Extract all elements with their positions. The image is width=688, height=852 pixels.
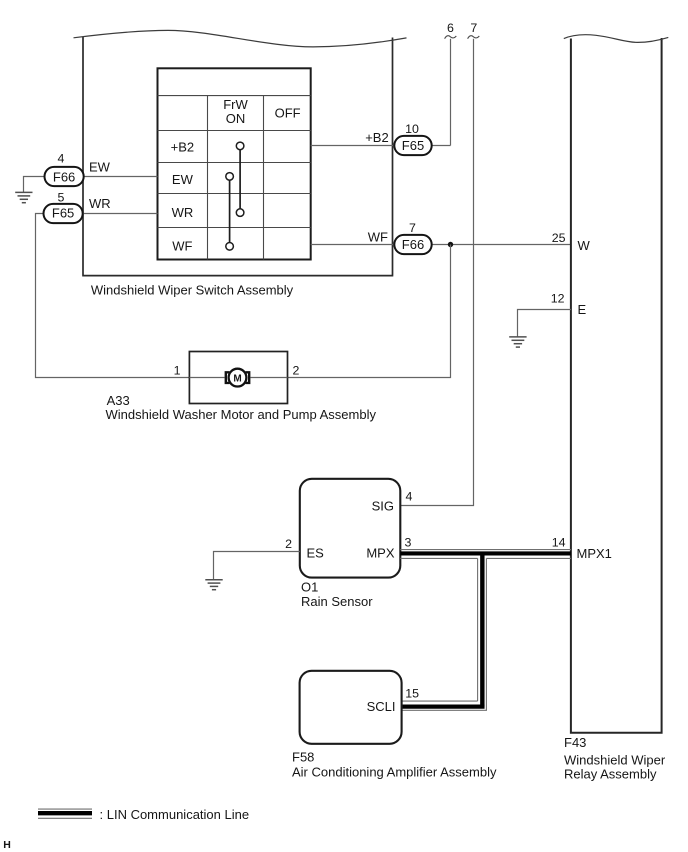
washer motor box bbox=[189, 352, 287, 404]
svg-text:F66: F66 bbox=[53, 169, 75, 184]
svg-text:2: 2 bbox=[293, 364, 300, 378]
wiper switch assembly torn-edge wavy top bbox=[74, 30, 407, 47]
legend LIN sample thick bbox=[38, 811, 92, 815]
switch contact WR bbox=[236, 209, 244, 217]
svg-text:F43: F43 bbox=[564, 735, 586, 750]
wire WR from connector to table bbox=[84, 213, 158, 215]
svg-text:+B2: +B2 bbox=[365, 130, 389, 145]
wiper switch assembly outer box bbox=[82, 37, 393, 276]
svg-text:WR: WR bbox=[89, 196, 111, 211]
svg-text:W: W bbox=[578, 238, 591, 253]
LIN line SCLI thick bbox=[402, 704, 485, 708]
switch contact WF bbox=[226, 243, 234, 251]
svg-text:15: 15 bbox=[405, 687, 419, 701]
LIN line SCLI top thin bbox=[402, 700, 478, 702]
svg-text:6: 6 bbox=[447, 21, 454, 35]
switch bar EW to WF bbox=[229, 177, 231, 247]
svg-text:A33: A33 bbox=[107, 393, 130, 408]
svg-text:Windshield Wiper: Windshield Wiper bbox=[564, 752, 666, 767]
LIN line SCLI bottom thin bbox=[402, 709, 487, 711]
wire 6 vertical bbox=[450, 39, 452, 146]
svg-text:Windshield Wiper Switch Assemb: Windshield Wiper Switch Assembly bbox=[91, 282, 294, 297]
connector F65 pin 10 bbox=[394, 136, 431, 155]
svg-text:MPX1: MPX1 bbox=[577, 546, 612, 561]
wire WF from table to connector F66 bbox=[311, 244, 395, 246]
wire F66 to relay box W bbox=[432, 244, 571, 246]
svg-text:2: 2 bbox=[285, 537, 292, 551]
svg-text:14: 14 bbox=[552, 536, 566, 550]
rain sensor box bbox=[300, 479, 401, 578]
svg-text:Relay Assembly: Relay Assembly bbox=[564, 766, 657, 781]
svg-text:5: 5 bbox=[58, 191, 65, 205]
svg-text:WF: WF bbox=[368, 229, 388, 244]
svg-text:WR: WR bbox=[172, 205, 194, 220]
wire F66 to ground bbox=[24, 177, 45, 193]
svg-text:4: 4 bbox=[406, 490, 413, 504]
svg-text:10: 10 bbox=[405, 122, 419, 136]
svg-text:12: 12 bbox=[551, 291, 565, 305]
svg-text:H: H bbox=[3, 839, 11, 851]
svg-text:Windshield Washer Motor and Pu: Windshield Washer Motor and Pump Assembl… bbox=[106, 407, 377, 422]
svg-text:4: 4 bbox=[58, 151, 65, 165]
svg-text:F65: F65 bbox=[402, 138, 424, 153]
LIN branch outer thin bbox=[485, 558, 487, 710]
junction dot bbox=[448, 242, 453, 247]
svg-text:ES: ES bbox=[307, 546, 325, 561]
LIN line MPX bottom thin with branch gap bbox=[400, 557, 571, 559]
svg-text:E: E bbox=[578, 302, 587, 317]
svg-text:O1: O1 bbox=[301, 580, 318, 595]
svg-text:7: 7 bbox=[409, 221, 416, 235]
motor circle M bbox=[229, 369, 247, 387]
svg-text:7: 7 bbox=[470, 21, 477, 35]
motor interior wires bbox=[189, 377, 287, 379]
svg-text:M: M bbox=[233, 373, 241, 384]
svg-text:+B2: +B2 bbox=[171, 140, 195, 155]
svg-text:WF: WF bbox=[172, 239, 192, 254]
motor bracket right bbox=[246, 372, 250, 383]
svg-text:Rain Sensor: Rain Sensor bbox=[301, 594, 373, 609]
svg-text:1: 1 bbox=[174, 364, 181, 378]
svg-text:F66: F66 bbox=[402, 237, 424, 252]
wire F65 to vertical 6 bbox=[432, 145, 451, 147]
svg-text:ON: ON bbox=[226, 111, 246, 126]
svg-text:3: 3 bbox=[405, 536, 412, 550]
LIN line MPX thick bbox=[400, 551, 571, 555]
connector F66 pin 7 bbox=[394, 235, 431, 254]
svg-text:: LIN Communication Line: : LIN Communication Line bbox=[100, 807, 250, 822]
relay assembly torn-edge wavy top bbox=[564, 35, 669, 43]
air conditioning amplifier box bbox=[300, 671, 402, 744]
svg-text:FrW: FrW bbox=[223, 97, 248, 112]
wire EW from connector to table bbox=[84, 176, 158, 178]
wire 7 top tilde bbox=[468, 36, 480, 39]
svg-text:SIG: SIG bbox=[372, 498, 394, 513]
table inner grid bbox=[158, 96, 311, 260]
motor bracket left bbox=[226, 372, 230, 383]
relay assembly box bbox=[570, 38, 663, 733]
switch contact EW bbox=[226, 173, 234, 181]
legend LIN sample top thin bbox=[38, 808, 92, 810]
switch bar +B2 to WR bbox=[239, 146, 241, 213]
svg-text:F65: F65 bbox=[52, 206, 74, 221]
svg-text:MPX: MPX bbox=[366, 546, 395, 561]
ground symbol E bbox=[509, 337, 526, 347]
wire E to ground bbox=[518, 310, 571, 337]
connector F66 pin 4 bbox=[45, 167, 84, 186]
svg-text:OFF: OFF bbox=[275, 106, 301, 121]
connector F65 pin 5 bbox=[44, 204, 83, 223]
wire 6 top tilde bbox=[445, 36, 457, 39]
ground symbol left bbox=[15, 192, 32, 202]
wire F65 to washer motor pin 1 bbox=[36, 214, 190, 378]
wire ES to ground bbox=[214, 552, 300, 580]
LIN branch vertical thick bbox=[480, 553, 484, 706]
svg-text:SCLI: SCLI bbox=[367, 699, 396, 714]
svg-text:25: 25 bbox=[552, 231, 566, 245]
LIN branch inner thin bbox=[477, 558, 479, 701]
LIN line MPX top thin bbox=[400, 549, 571, 551]
switch contact table border bbox=[158, 68, 311, 259]
switch contact +B2 bbox=[236, 142, 244, 150]
legend LIN sample bottom thin bbox=[38, 817, 92, 819]
svg-text:EW: EW bbox=[89, 160, 111, 175]
svg-text:Air Conditioning Amplifier Ass: Air Conditioning Amplifier Assembly bbox=[292, 765, 497, 780]
ground symbol ES bbox=[205, 580, 222, 590]
wire 7 vertical to rain sensor SIG bbox=[400, 39, 473, 506]
wire junction down to washer motor pin 2 bbox=[288, 245, 451, 378]
wire +B2 from table to connector F65 bbox=[311, 145, 395, 147]
svg-text:EW: EW bbox=[172, 172, 194, 187]
svg-text:F58: F58 bbox=[292, 749, 314, 764]
